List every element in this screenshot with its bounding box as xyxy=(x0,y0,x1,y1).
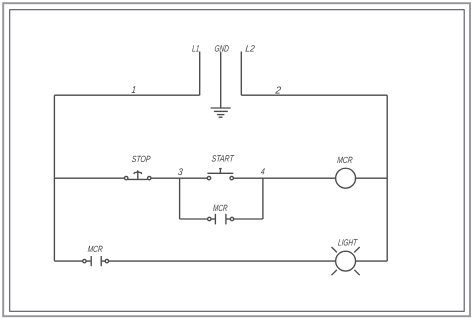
svg-text:MCR: MCR xyxy=(213,203,229,213)
wire branch left xyxy=(180,218,208,220)
svg-text:MCR: MCR xyxy=(87,244,103,254)
svg-text:LIGHT: LIGHT xyxy=(338,238,359,248)
lamp LIGHT xyxy=(332,247,360,275)
wire rail 2 xyxy=(241,94,387,96)
svg-text:GND: GND xyxy=(214,44,230,54)
svg-text:STOP: STOP xyxy=(131,154,151,164)
wire branch right xyxy=(234,218,263,220)
wire START to node 4 xyxy=(233,177,335,179)
relay coil MCR xyxy=(336,168,356,188)
svg-text:L2: L2 xyxy=(245,44,255,54)
ground xyxy=(211,108,231,117)
contact MCR (NO, seal-in branch) xyxy=(208,214,234,225)
contact MCR (NO, light rung) xyxy=(83,256,109,266)
wire bottom rung left xyxy=(54,260,82,262)
wire right rail xyxy=(386,95,388,261)
wire GND drop xyxy=(220,52,222,108)
wire node 4 branch drop xyxy=(262,178,264,219)
pushbutton STOP (NC) xyxy=(125,171,152,180)
wire L1 drop xyxy=(199,52,201,96)
wire STOP to node 3 and START xyxy=(151,177,207,179)
wire coil to right rail xyxy=(356,177,387,179)
wire light to right rail xyxy=(356,260,387,262)
wire rail 1 xyxy=(54,94,199,96)
wire rung2 left xyxy=(54,177,124,179)
pushbutton START (NO) xyxy=(207,169,233,180)
wire L2 drop xyxy=(240,52,242,96)
svg-text:MCR: MCR xyxy=(337,155,354,165)
wire node 3 branch drop xyxy=(179,178,181,219)
wire left rail xyxy=(53,95,55,261)
svg-text:L1: L1 xyxy=(192,44,200,54)
wire contact to light xyxy=(109,260,336,262)
svg-text:START: START xyxy=(211,154,235,164)
